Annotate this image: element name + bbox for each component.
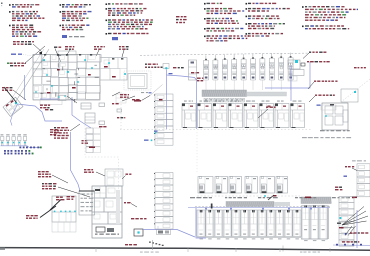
border tick	[152, 240, 154, 250]
bottom wire run	[333, 244, 370, 246]
garage row end wall	[327, 206, 329, 240]
building floor plan outline	[33, 51, 101, 105]
row 2 dashed baseline	[197, 195, 300, 197]
blue tag	[345, 233, 347, 235]
wire junction dots on colonnade	[205, 208, 312, 210]
schedule text right 1	[320, 130, 350, 131]
office label B	[67, 196, 75, 200]
stack stair block	[157, 230, 171, 235]
office label A	[56, 197, 64, 201]
riser gray bus bar	[202, 90, 247, 97]
feeder wire drop B	[196, 79, 198, 129]
stack header text	[352, 160, 366, 161]
leader mid plan 2	[112, 92, 120, 96]
riser wire left	[71, 132, 81, 191]
main switchboard cluster	[288, 60, 305, 101]
leader T2	[66, 50, 70, 56]
hatch lines right	[302, 197, 332, 204]
unit stack right edge	[357, 164, 370, 197]
switchboard label R1	[309, 52, 326, 53]
equipment pad dotted boundary	[124, 71, 151, 90]
keyed label group L1	[13, 41, 34, 45]
keyed label group L3	[2, 87, 12, 91]
garage units row	[197, 206, 328, 242]
diag utility line	[341, 79, 370, 102]
corridor dashed boundary L	[85, 125, 119, 200]
garage row top dashed line	[195, 206, 330, 208]
keyed notes column F	[302, 6, 358, 29]
general notes column A	[9, 4, 44, 37]
border tick right	[282, 246, 284, 252]
wing leader	[96, 172, 105, 176]
bus bar hatch	[203, 90, 247, 97]
leader from L1	[33, 44, 42, 52]
leader top right plan	[122, 96, 135, 101]
keyed notes column E	[246, 3, 290, 37]
note B schedule box	[62, 35, 67, 38]
overhead wire with tick labels	[145, 67, 163, 69]
pad leader with red tag	[134, 100, 141, 102]
leader M1	[52, 175, 68, 183]
property line 1	[16, 49, 49, 101]
central unit stack lower	[154, 173, 173, 230]
riser top boundary (dashed)	[140, 53, 308, 55]
leader from L2	[24, 46, 45, 64]
bottom wire tags	[336, 244, 362, 246]
plan label T6	[173, 67, 184, 68]
panel box C	[99, 103, 105, 107]
plan label mid R5	[132, 99, 140, 100]
general notes column C	[106, 3, 153, 34]
corridor dotted vertical	[196, 132, 198, 174]
leader T3	[96, 50, 99, 56]
keyed label far right	[354, 67, 366, 68]
red circuit tags in plan	[47, 66, 116, 94]
branch wire left drop	[24, 75, 26, 100]
unit circuit leader	[258, 109, 268, 118]
bottom right label row lower	[342, 241, 359, 242]
schedule label	[82, 140, 89, 144]
plan label mid R3	[99, 126, 107, 127]
hatch lines	[227, 202, 275, 207]
service pedestal group	[1, 134, 41, 147]
riser meter boxes row	[204, 98, 244, 102]
wing tag right	[126, 174, 132, 175]
wire size label	[169, 73, 173, 74]
pool feeder stub	[157, 226, 159, 230]
leader mid plan	[67, 96, 77, 103]
sheet margin tick	[1, 3, 3, 5]
floor plan annex	[100, 58, 127, 81]
sheet border line	[0, 248, 370, 251]
plan label T7	[191, 72, 199, 73]
plan label T4	[119, 46, 129, 50]
garage row left boundary wire	[196, 208, 206, 238]
branch wire at plan top	[40, 98, 60, 100]
keyed label R3	[314, 81, 338, 82]
load schedule boxes	[86, 128, 101, 153]
title strip ticks	[96, 248, 330, 253]
clubhouse tag 1	[124, 202, 131, 203]
unit circuit tag	[266, 107, 276, 108]
riser output wire	[265, 62, 310, 88]
survey point dot	[40, 52, 43, 55]
unit plans row 1	[182, 101, 305, 128]
plan label T5	[145, 64, 158, 65]
leader R4	[309, 96, 315, 102]
plan label T3	[94, 46, 105, 50]
riser bus bar extension	[247, 92, 287, 96]
garage row hatched strip	[226, 202, 274, 207]
clubhouse plan	[92, 169, 123, 238]
stack label	[345, 166, 354, 167]
corner unit plan right	[317, 103, 349, 130]
pad dotted vertical	[120, 92, 122, 129]
faint boxes below	[321, 105, 336, 110]
keyed note list block	[54, 127, 69, 139]
unit plans row 2	[198, 177, 288, 194]
branch wire plan right	[72, 97, 91, 128]
fan leaders bottom right	[337, 207, 368, 229]
meter stack symbol	[58, 96, 66, 101]
stack gap devices	[144, 140, 149, 141]
clubhouse tag leader	[131, 204, 137, 208]
wire along rotated plan	[11, 105, 18, 126]
rotated utility plan	[3, 97, 23, 116]
clubhouse wing label	[84, 169, 94, 173]
colonnade feeder wire	[188, 207, 330, 209]
bottom right unit stack	[339, 197, 354, 247]
pad label	[141, 92, 148, 93]
service junction symbol	[163, 64, 169, 69]
keyed notes column D	[204, 3, 249, 42]
plan label T2	[65, 46, 74, 50]
keyed label group M2	[42, 183, 56, 189]
equipment pad	[128, 74, 147, 89]
panel box A	[81, 103, 91, 109]
leader M2	[58, 187, 90, 197]
leader from note list	[70, 124, 80, 131]
keyed label group L2	[10, 63, 26, 67]
border corner smudge	[0, 247, 5, 250]
pool feeder wire	[143, 230, 195, 238]
garage row labels	[190, 195, 357, 200]
bold leader to pole	[4, 87, 17, 103]
riser drop tick	[211, 204, 213, 209]
stack label 2	[335, 187, 342, 191]
feeder wire to riser	[167, 75, 197, 80]
plan label mid L2	[45, 109, 53, 110]
schedule text right 2	[302, 137, 351, 138]
switchboard label R2	[307, 61, 330, 62]
property line 2	[10, 49, 44, 101]
panel box E	[117, 109, 122, 112]
small utility box left of pad	[116, 94, 126, 103]
plan label mid R2	[117, 117, 125, 118]
meter bank row 1	[19, 147, 41, 149]
bottom right riser wire	[356, 210, 358, 248]
row2 red tag	[273, 195, 277, 197]
leader from L3	[13, 90, 26, 100]
office arrow	[50, 200, 61, 211]
branch wire from pole	[17, 104, 62, 121]
meter bank row 2	[4, 150, 30, 152]
general notes column B	[60, 4, 92, 30]
left riser panel	[189, 60, 197, 80]
ceiling device symbols (cyan)	[35, 59, 126, 98]
leader T1 down	[55, 49, 61, 62]
pedestal label	[50, 129, 59, 135]
site label arrow group	[26, 215, 38, 219]
pool label row	[125, 244, 137, 245]
panel box B	[85, 113, 95, 123]
bottom right label row upper	[350, 232, 368, 233]
plan label T1	[54, 47, 61, 48]
central unit stack upper	[154, 94, 173, 145]
stack blue tag	[344, 176, 348, 177]
riser feed label	[197, 78, 203, 82]
leader R3	[308, 82, 314, 89]
utility pole symbol	[15, 102, 17, 104]
mini note block	[176, 16, 187, 23]
stack meter tag	[154, 131, 158, 132]
site arrow	[40, 206, 56, 218]
note C schedule box	[112, 37, 118, 40]
keyed label group M1	[38, 171, 51, 177]
hatched strip tail	[274, 202, 290, 206]
leader R1	[303, 53, 309, 59]
panel box D	[99, 121, 105, 125]
clubhouse tag 2	[131, 218, 147, 219]
corridor dashed line	[120, 129, 311, 131]
leader T4	[122, 50, 124, 57]
plan label mid L	[40, 105, 50, 109]
leasing office plan	[52, 196, 76, 232]
corner unit annex	[341, 89, 358, 102]
pool equipment box	[134, 229, 143, 236]
dotted leader marks	[149, 242, 164, 247]
leader stack	[352, 168, 357, 171]
lower fan leaders	[345, 226, 352, 236]
wing tag leader	[122, 176, 126, 180]
plan label mid R1	[112, 103, 119, 104]
garage right hatched strip	[301, 197, 331, 204]
feeder wire drop A	[166, 70, 168, 130]
plan label mid R4	[120, 94, 129, 98]
survey blue label	[11, 54, 16, 55]
keyed label R4	[315, 95, 335, 96]
meter bank row 3	[4, 153, 34, 155]
office schedule table	[79, 191, 95, 215]
